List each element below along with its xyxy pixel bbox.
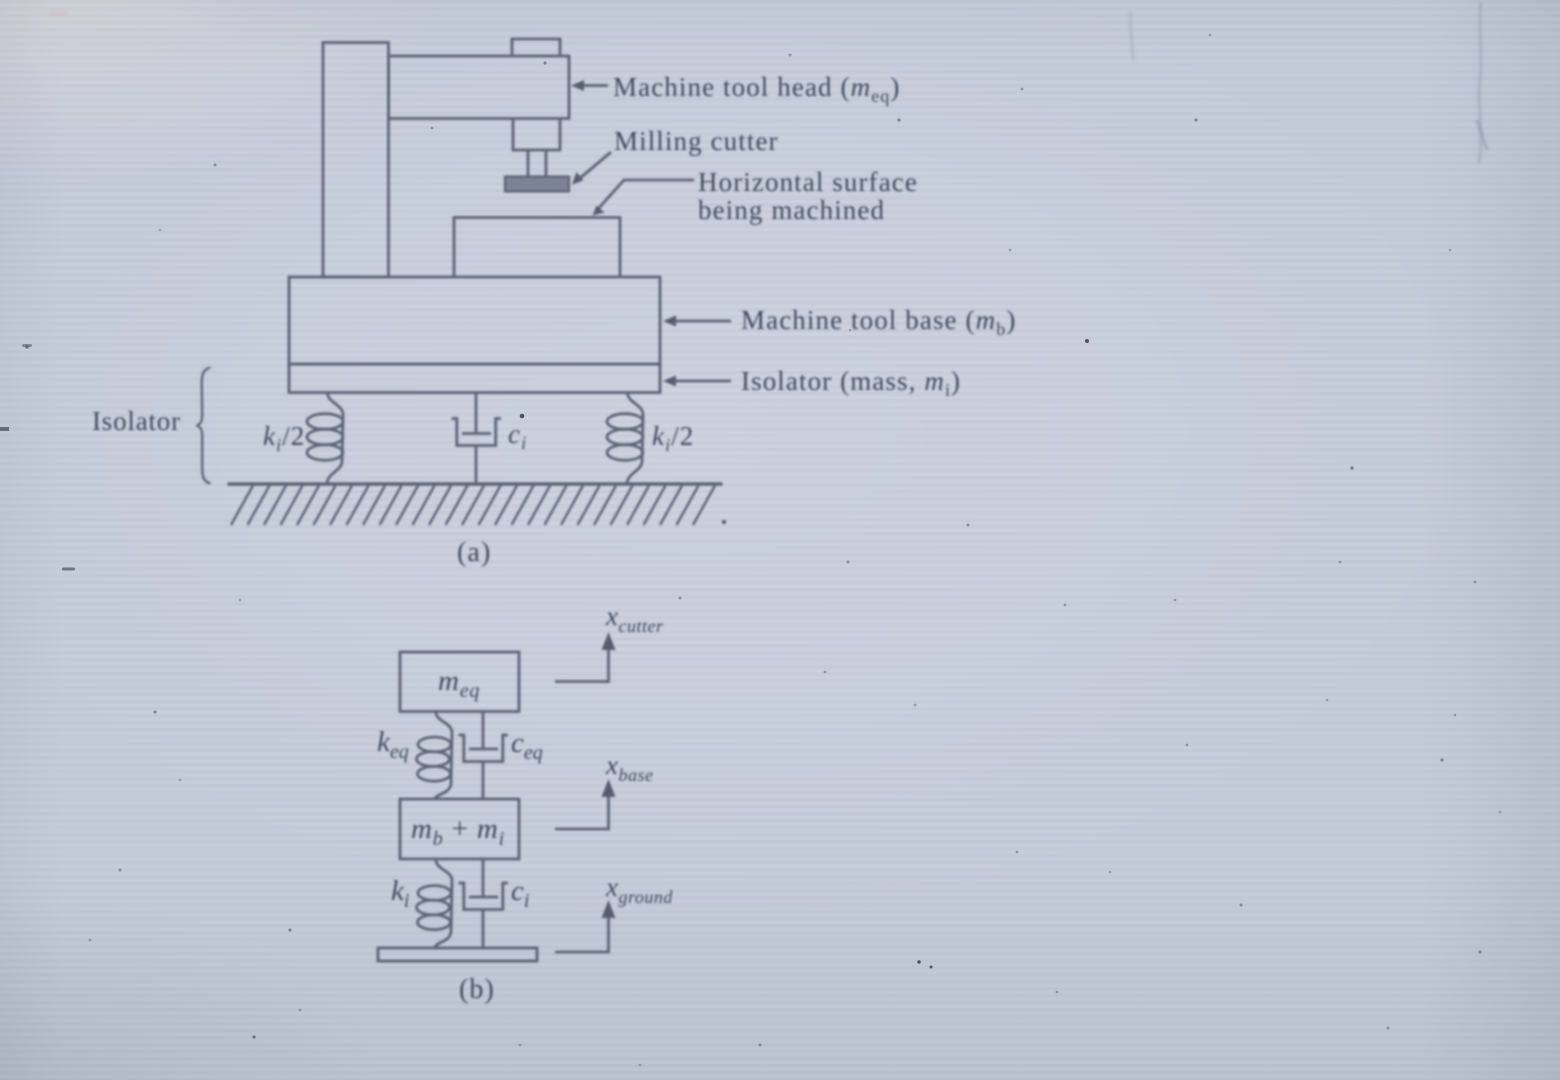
mass mb+mi box [400,799,519,859]
leader arrow to machine tool base [663,316,731,327]
damper ci cup (b) [459,883,509,910]
damper ceq rod bottom [482,762,485,800]
ground plate (b) [378,948,537,961]
brace for Isolator label [197,368,211,484]
machine tool head body (a) [389,56,570,119]
svg-text:(a): (a) [457,537,491,568]
svg-text:ceq: ceq [511,727,543,764]
svg-text:ci: ci [508,419,527,453]
leader arrow to isolator slab [663,376,731,387]
scratch top right [1479,2,1481,163]
spring ki leads (b) [435,859,452,948]
motion arrow x cutter [555,632,616,682]
damper ceq rod top [482,712,485,750]
isolator damper ci : rod top [475,393,478,435]
isolator damper ci : cup [452,419,502,446]
svg-text:Machine tool head (meq): Machine tool head (meq) [613,72,900,106]
ground hatching (a) [231,486,715,526]
svg-text:ki/2: ki/2 [652,421,694,455]
leader arrow to milling cutter [572,152,611,185]
svg-text:keq: keq [377,726,409,763]
svg-text:Milling cutter: Milling cutter [614,126,779,156]
svg-text:ci: ci [511,875,529,912]
svg-text:being machined: being machined [698,195,885,225]
svg-text:Isolator: Isolator [92,406,181,436]
svg-text:Horizontal surface: Horizontal surface [698,167,918,197]
pink smudge top left [50,10,68,17]
isolator spring left ki/2 : coils [307,414,343,461]
milling cutter (filled) [505,177,569,192]
head top cap [512,39,560,56]
damper ceq piston plate [469,748,498,751]
svg-text:(b): (b) [459,974,495,1005]
spring keq coils [417,737,452,781]
leader arrow to machine tool head [571,80,608,91]
motion arrow x ground [555,900,616,952]
spring ki coils (b) [417,886,452,930]
damper ci rod top (b) [482,859,485,898]
svg-text:xground: xground [605,872,673,907]
svg-text:Machine tool base (mb): Machine tool base (mb) [741,305,1016,339]
faint smudge above head label [1130,12,1133,60]
svg-text:Isolator (mass, mi): Isolator (mass, mi) [741,366,961,400]
svg-text:meq: meq [438,665,480,702]
isolator damper ci : piston plate [462,432,491,435]
svg-text:xbase: xbase [605,750,653,785]
scratch lower part [1477,120,1487,150]
spindle shaft left line [527,150,530,177]
svg-text:mb + mi: mb + mi [411,813,505,850]
mass meq box [400,652,519,712]
ground line (a) [228,482,723,486]
isolator damper ci : rod bottom [475,446,478,485]
damper ci rod bottom (b) [482,910,485,949]
isolator spring right ki/2 : coils [607,414,643,461]
isolator spring right ki/2 : leads [627,393,643,485]
spindle shaft right line [545,150,548,177]
leader line to horizontal surface [593,180,695,216]
isolator spring left ki/2 : leads [327,393,343,485]
workpiece being machined [454,218,620,278]
svg-text:ki/2: ki/2 [263,421,305,455]
spring keq leads [435,712,452,800]
svg-text:xcutter: xcutter [605,601,664,636]
damper ceq cup [459,735,509,762]
hatch end dot [722,520,726,524]
spindle housing block [513,119,560,151]
machine tool base (mb) [289,277,660,364]
motion arrow x base [555,779,616,829]
machine column (a) [323,43,389,278]
isolator slab (mass mi) [289,364,660,393]
damper ci piston plate (b) [469,896,498,899]
svg-text:ki: ki [391,875,409,912]
